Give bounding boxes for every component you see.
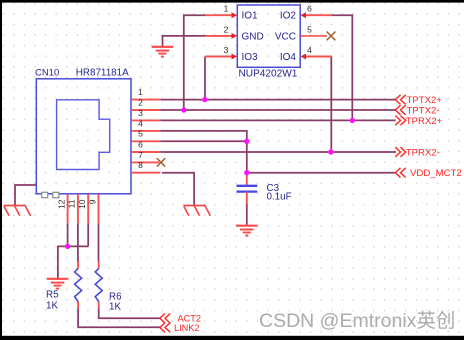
svg-text:6: 6 (307, 4, 312, 14)
svg-text:IO2: IO2 (280, 11, 297, 22)
svg-text:11: 11 (67, 199, 77, 208)
svg-text:7: 7 (138, 150, 143, 160)
svg-text:3: 3 (224, 45, 229, 55)
svg-text:4: 4 (307, 45, 312, 55)
svg-text:5: 5 (138, 129, 143, 139)
svg-text:TPTX2+: TPTX2+ (407, 95, 443, 106)
svg-text:R5: R5 (46, 290, 59, 301)
svg-text:TPTX2-: TPTX2- (407, 105, 440, 116)
svg-text:HR871181A: HR871181A (76, 68, 129, 79)
svg-text:CSDN @Emtronix英创: CSDN @Emtronix英创 (259, 310, 455, 332)
svg-text:IO4: IO4 (280, 52, 297, 63)
svg-text:IO1: IO1 (242, 11, 259, 22)
svg-text:2: 2 (224, 24, 229, 34)
svg-text:0.1uF: 0.1uF (267, 192, 292, 203)
svg-text:10: 10 (77, 199, 87, 209)
svg-text:1K: 1K (109, 302, 121, 313)
svg-text:TPRX2-: TPRX2- (406, 147, 440, 158)
svg-text:VDD_MCT2: VDD_MCT2 (410, 168, 462, 179)
svg-text:TPRX2+: TPRX2+ (406, 116, 443, 127)
svg-text:5: 5 (307, 24, 312, 34)
svg-text:6: 6 (138, 139, 143, 149)
svg-text:2: 2 (138, 97, 143, 107)
svg-text:12: 12 (56, 199, 66, 209)
svg-text:GND: GND (242, 31, 264, 42)
svg-text:1: 1 (138, 87, 143, 97)
svg-text:3: 3 (138, 108, 143, 118)
svg-text:IO3: IO3 (242, 52, 259, 63)
svg-text:9: 9 (87, 199, 97, 204)
svg-text:CN10: CN10 (35, 68, 59, 79)
svg-text:VCC: VCC (275, 31, 296, 42)
svg-text:4: 4 (138, 118, 143, 128)
svg-text:8: 8 (138, 160, 143, 170)
svg-text:LINK2: LINK2 (174, 323, 200, 333)
svg-text:1K: 1K (46, 301, 58, 312)
svg-text:1: 1 (224, 4, 229, 14)
svg-text:NUP4202W1: NUP4202W1 (239, 69, 298, 80)
